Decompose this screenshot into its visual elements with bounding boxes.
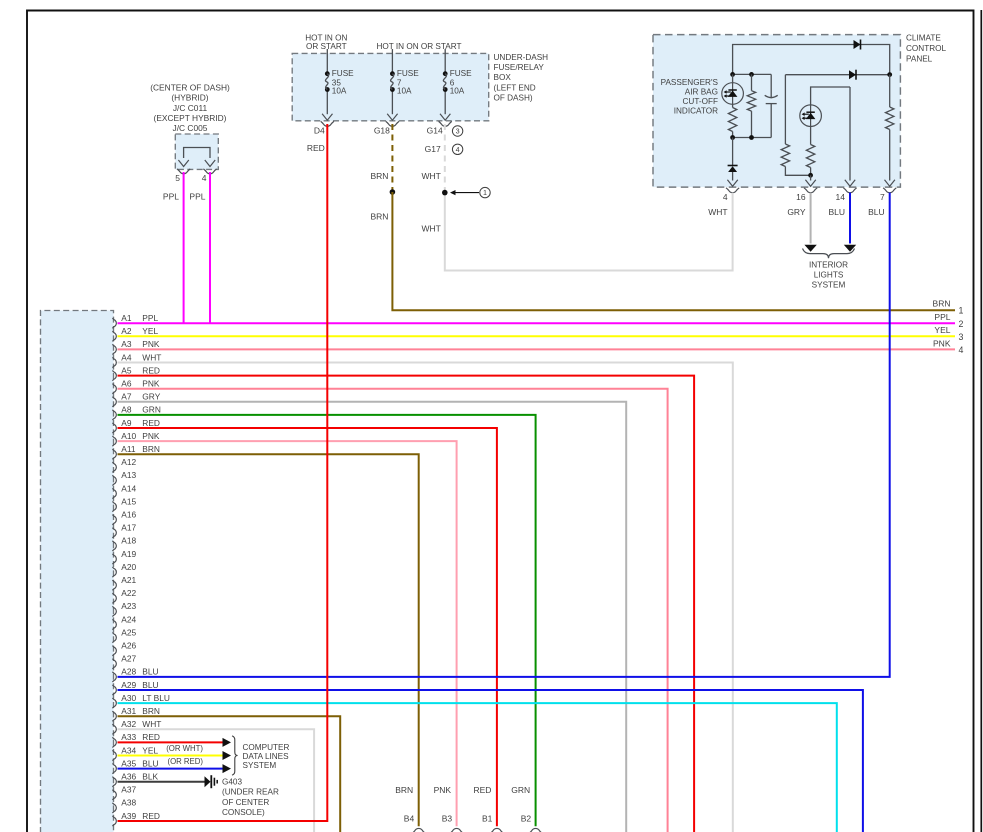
pin 4 of climate control panel [708,188,739,217]
svg-text:B2: B2 [521,813,532,823]
svg-text:RED: RED [307,143,325,153]
junction box J/C C011/C005 [175,134,218,169]
wire GRY from climate pin 16 to interior lights [804,193,816,252]
svg-text:A31: A31 [121,706,136,716]
terminal B1 [482,813,504,832]
wire BLU from climate pin 14 to interior lights [844,193,856,252]
pin A3 of connector [112,339,160,354]
pin A19 of connector [112,549,136,564]
pin A8 of connector [112,405,161,420]
svg-text:(OR RED): (OR RED) [167,757,203,766]
wire YEL from A2 to right edge label 3 [118,325,964,342]
svg-text:SYSTEM: SYSTEM [812,281,846,290]
pin A38 of connector [112,798,136,813]
svg-text:10A: 10A [332,86,347,95]
svg-text:COMPUTER: COMPUTER [243,743,290,752]
svg-text:(UNDER REAR: (UNDER REAR [222,788,279,797]
brace computer data lines [232,736,238,775]
label HOT IN ON OR START (fuse 35) [305,34,347,51]
svg-text:A17: A17 [121,523,136,533]
svg-text:A13: A13 [121,470,136,480]
svg-text:PNK: PNK [142,379,160,389]
label INTERIOR LIGHTS SYSTEM [809,261,848,290]
svg-text:A38: A38 [121,798,136,808]
label HOT IN ON OR START (fuses 7 and 6) [376,42,461,51]
svg-text:LT BLU: LT BLU [142,693,170,703]
pin A12 of connector [112,457,136,472]
fuse 7 10A feed wire [387,49,397,120]
svg-text:RED: RED [142,418,160,428]
svg-text:A30: A30 [121,693,136,703]
resistor R5 right branch [885,72,895,186]
svg-text:A3: A3 [121,339,132,349]
svg-text:(CENTER OF DASH): (CENTER OF DASH) [150,83,230,93]
svg-text:B1: B1 [482,813,493,823]
svg-text:UNDER-DASH: UNDER-DASH [494,53,549,62]
bus bar wire inside junction box [178,148,215,167]
pin A29 of connector [112,680,158,695]
wire BRN solid from splice to right edge label 1 [370,192,955,310]
terminal 5 of junction box [175,169,190,183]
svg-text:3: 3 [959,332,964,342]
pin A32 of connector [112,719,161,734]
terminal 4 of junction box [202,169,217,183]
pin 7 of climate control panel [868,188,896,217]
label COMPUTER DATA LINES SYSTEM [243,743,290,770]
svg-text:A15: A15 [121,496,136,506]
svg-text:A16: A16 [121,510,136,520]
wire YEL from A34 to computer data lines [118,744,232,760]
pin A30 of connector [112,693,170,708]
pin 16 of climate control panel [787,188,817,217]
svg-text:A28: A28 [121,667,136,677]
svg-text:3: 3 [456,127,460,136]
fuse 35 10A feed wire [322,49,332,120]
svg-text:BOX: BOX [494,73,512,82]
pin A15 of connector [112,496,136,511]
svg-text:A29: A29 [121,680,136,690]
pin A34 of connector [112,745,158,760]
svg-text:2: 2 [959,319,964,329]
wire LT BLU from A30 down [118,703,837,832]
svg-text:INTERIOR: INTERIOR [809,261,848,270]
svg-text:BLU: BLU [142,680,158,690]
svg-text:J/C C011: J/C C011 [173,103,208,113]
svg-text:CONTROL: CONTROL [906,44,946,53]
pin A17 of connector [112,523,136,538]
pin A37 of connector [112,785,136,800]
svg-text:B4: B4 [404,813,415,823]
LED 2 [800,87,850,127]
wire WHT from A4 down at right [118,363,733,832]
svg-text:D4: D4 [314,126,325,136]
svg-text:CONSOLE): CONSOLE) [222,808,265,817]
svg-text:A11: A11 [121,444,136,454]
splice on BRN wire [390,189,396,195]
svg-text:DATA LINES: DATA LINES [243,752,290,761]
svg-text:A1: A1 [121,313,132,323]
wire RED from fuse 35 terminal D4 down to A39 [118,124,328,821]
svg-text:PASSENGER'S: PASSENGER'S [661,78,719,87]
svg-text:WHT: WHT [421,171,440,181]
svg-text:A6: A6 [121,379,132,389]
terminal G18 of fuse box [374,121,399,135]
splice on WHT wire with callout 1 [442,187,490,197]
pin A18 of connector [112,536,136,551]
svg-text:CLIMATE: CLIMATE [906,34,941,43]
node bottom junction of sub-circuit 1 [730,135,771,140]
pin A9 of connector [112,418,160,433]
wire GRY from A7 down [118,402,627,832]
pin A31 of connector [112,706,160,721]
node junction above pin 16 [805,173,815,186]
svg-text:GRN: GRN [511,785,530,795]
LED passenger airbag cut-off indicator [722,74,744,107]
svg-text:J/C C005: J/C C005 [173,123,208,133]
wire WHT dashed from fuse 6 terminals G14/G17 [421,124,444,193]
svg-text:PNK: PNK [142,431,160,441]
svg-text:YEL: YEL [142,326,158,336]
svg-text:16: 16 [796,192,806,202]
capacitor C1 branch [765,74,778,137]
svg-text:CUT-OFF: CUT-OFF [683,97,718,106]
svg-text:YEL: YEL [142,745,158,755]
wire BLU from A28 up to climate pin 7 [118,193,890,677]
resistor R2 parallel branch [747,74,755,137]
svg-text:5: 5 [175,173,180,183]
pin A27 of connector [112,654,136,669]
svg-text:GRY: GRY [787,207,806,217]
under-dash fuse/relay box [292,53,489,120]
wire second rail inside climate panel [785,74,889,76]
resistor R4 under LED2 [806,127,814,176]
callout circled 4 [452,144,462,154]
pin A5 of connector [112,365,160,380]
pin A22 of connector [112,588,136,603]
svg-text:BRN: BRN [370,212,388,222]
svg-text:SYSTEM: SYSTEM [243,761,277,770]
diode D1 on top rail [854,40,861,50]
svg-text:GRY: GRY [142,392,160,402]
svg-text:FUSE/RELAY: FUSE/RELAY [494,63,545,72]
pin A11 of connector [112,444,160,459]
wire RED from A33 to computer data lines [118,738,232,747]
svg-text:A22: A22 [121,588,136,598]
label CLIMATE CONTROL PANEL [906,34,946,64]
svg-text:1: 1 [483,188,487,197]
svg-text:1: 1 [959,305,964,315]
svg-text:RED: RED [142,811,160,821]
svg-text:BLU: BLU [828,207,845,217]
wire PPL from A1 to right edge label 2 [118,312,964,329]
pin A6 of connector [112,379,160,394]
pin A28 of connector [112,667,158,682]
pin A20 of connector [112,562,136,577]
terminal D4 of fuse box [314,121,334,135]
pin A7 of connector [112,392,160,407]
svg-text:14: 14 [836,192,846,202]
svg-text:A18: A18 [121,536,136,546]
wire GRN from A8 to B2 [118,415,536,826]
terminal label G17 [425,144,441,154]
svg-text:YEL: YEL [934,325,950,335]
ground G403 [205,775,218,788]
diode D3 above pin 4 [727,138,737,187]
svg-text:(HYBRID): (HYBRID) [171,93,208,103]
wire BRN dashed from fuse 7 terminal G18 [370,124,392,192]
svg-text:A5: A5 [121,365,132,375]
svg-text:RED: RED [142,732,160,742]
callout circled 3 [452,126,462,136]
svg-text:PNK: PNK [142,339,160,349]
svg-text:LIGHTS: LIGHTS [814,271,844,280]
pin A13 of connector [112,470,136,485]
svg-text:10A: 10A [397,86,412,95]
svg-text:A39: A39 [121,811,136,821]
pin A2 of connector [112,326,158,341]
label WHT below splice [421,223,440,233]
pin 14 of climate control panel [828,188,856,217]
svg-text:A34: A34 [121,745,136,755]
svg-text:PPL: PPL [163,192,179,202]
svg-text:PNK: PNK [933,338,951,348]
pin A33 of connector [112,732,160,747]
fuse 6 10A feed wire [440,49,450,120]
svg-text:A21: A21 [121,575,136,585]
svg-text:4: 4 [959,345,964,355]
pin A14 of connector [112,483,136,498]
svg-text:A26: A26 [121,641,136,651]
svg-text:BRN: BRN [142,444,160,454]
svg-text:A2: A2 [121,326,132,336]
svg-text:HOT IN ON OR START: HOT IN ON OR START [376,42,461,51]
svg-text:BLU: BLU [142,758,158,768]
svg-text:4: 4 [723,192,728,202]
svg-text:(EXCEPT HYBRID): (EXCEPT HYBRID) [154,113,227,123]
wire PNK from A6 down [118,389,668,832]
svg-text:4: 4 [202,173,207,183]
wire PNK from A10 to B3 [118,441,457,826]
svg-text:BLK: BLK [142,772,158,782]
pin A36 of connector [112,772,158,787]
pin A21 of connector [112,575,136,590]
svg-text:A4: A4 [121,352,132,362]
terminal B4 [404,813,426,832]
svg-text:A12: A12 [121,457,136,467]
wire BRN from A11 to B4 [118,454,419,826]
svg-text:G14: G14 [427,126,443,136]
fuse FUSE 35 10A [325,69,354,95]
svg-text:A19: A19 [121,549,136,559]
wire to pin 14 [845,87,855,186]
pin A35 of connector [112,758,158,773]
svg-text:PPL: PPL [934,312,950,322]
svg-text:WHT: WHT [421,223,440,233]
label UNDER-DASH FUSE/RELAY BOX (LEFT END OF DASH) [494,53,549,102]
terminal G14 of fuse box [427,121,452,135]
svg-text:FUSE: FUSE [450,69,472,78]
svg-text:WHT: WHT [708,207,727,217]
pin A25 of connector [112,627,136,642]
svg-text:A27: A27 [121,654,136,664]
fuse FUSE 7 10A [390,69,419,95]
svg-text:A32: A32 [121,719,136,729]
wire PNK from A3 to right edge label 4 [118,338,964,355]
pin A23 of connector [112,601,136,616]
diode D2 on second rail [849,70,856,80]
wire BLU from A35 to computer data lines [118,757,232,773]
svg-text:G18: G18 [374,126,390,136]
svg-text:A20: A20 [121,562,136,572]
label PASSENGERS AIR BAG CUT-OFF INDICATOR [661,78,719,116]
pin A39 of connector [112,811,160,826]
wire top rail inside climate panel [733,45,890,75]
terminal B2 [521,813,543,832]
svg-text:A10: A10 [121,431,136,441]
svg-text:G17: G17 [425,144,441,154]
svg-text:RED: RED [473,785,491,795]
svg-text:INDICATOR: INDICATOR [674,106,718,115]
svg-text:BLU: BLU [868,207,885,217]
svg-text:GRN: GRN [142,405,161,415]
svg-text:4: 4 [456,145,460,154]
svg-text:OR START: OR START [306,42,347,51]
pin A4 of connector [112,352,161,367]
svg-text:A33: A33 [121,732,136,742]
svg-text:PPL: PPL [142,313,158,323]
svg-text:OF CENTER: OF CENTER [222,798,269,807]
label G403 (UNDER REAR OF CENTER CONSOLE) [222,778,279,817]
svg-text:RED: RED [142,365,160,375]
wire BLU from A29 down [118,690,863,832]
svg-text:BRN: BRN [933,299,951,309]
wire BRN from A31 down [118,716,341,832]
svg-text:BRN: BRN [395,785,413,795]
svg-text:BRN: BRN [370,171,388,181]
svg-text:7: 7 [880,192,885,202]
svg-text:A35: A35 [121,758,136,768]
label BRN 1 at right edge [933,299,964,316]
svg-text:A24: A24 [121,614,136,624]
svg-text:A8: A8 [121,405,132,415]
svg-text:FUSE: FUSE [397,69,419,78]
connector block A (dashed) [41,311,114,832]
pin A24 of connector [112,614,136,629]
svg-text:WHT: WHT [142,352,161,362]
svg-text:A25: A25 [121,627,136,637]
fuse FUSE 6 10A [443,69,472,95]
pin A16 of connector [112,510,136,525]
svg-text:WHT: WHT [142,719,161,729]
pin A26 of connector [112,641,136,656]
wire RED from A9 to B1 [118,428,497,826]
svg-text:A37: A37 [121,785,136,795]
brace under interior lights arrows [803,249,855,259]
svg-text:G403: G403 [222,778,242,787]
svg-text:A23: A23 [121,601,136,611]
resistor R1 under LED1 [728,108,736,138]
svg-text:(LEFT END: (LEFT END [494,83,536,92]
svg-text:PANEL: PANEL [906,54,933,63]
wire WHT from climate pin 4 to splice [445,193,733,271]
svg-text:BRN: BRN [142,706,160,716]
svg-text:PNK: PNK [434,785,452,795]
svg-text:BLU: BLU [142,667,158,677]
svg-text:(OR WHT): (OR WHT) [166,744,203,753]
svg-text:OF DASH): OF DASH) [494,93,533,102]
wire BLK from A36 to ground G403 [118,781,205,783]
wire WHT from A32 down [118,729,315,832]
svg-text:FUSE: FUSE [332,69,354,78]
pin A1 of connector [112,313,158,328]
wire PPL from J/C terminal 5 down to A1 [163,172,184,323]
wire left branch of sub-circuit 2 with resistor R3 [781,75,810,176]
svg-text:AIR BAG: AIR BAG [685,87,718,96]
svg-text:10A: 10A [450,86,465,95]
svg-text:A36: A36 [121,772,136,782]
terminal B3 [442,813,464,832]
climate control panel box [653,35,900,188]
pin A10 of connector [112,431,160,446]
svg-text:PPL: PPL [189,192,205,202]
wire RED from A5 down [118,376,695,832]
svg-text:B3: B3 [442,813,453,823]
svg-text:A7: A7 [121,392,132,402]
node junction top of LED1 [730,72,771,77]
wire PPL from J/C terminal 4 down to A1 [189,172,210,323]
svg-text:A14: A14 [121,483,136,493]
svg-text:A9: A9 [121,418,132,428]
junction connector J/C C011 / J/C C005 label [150,83,230,133]
